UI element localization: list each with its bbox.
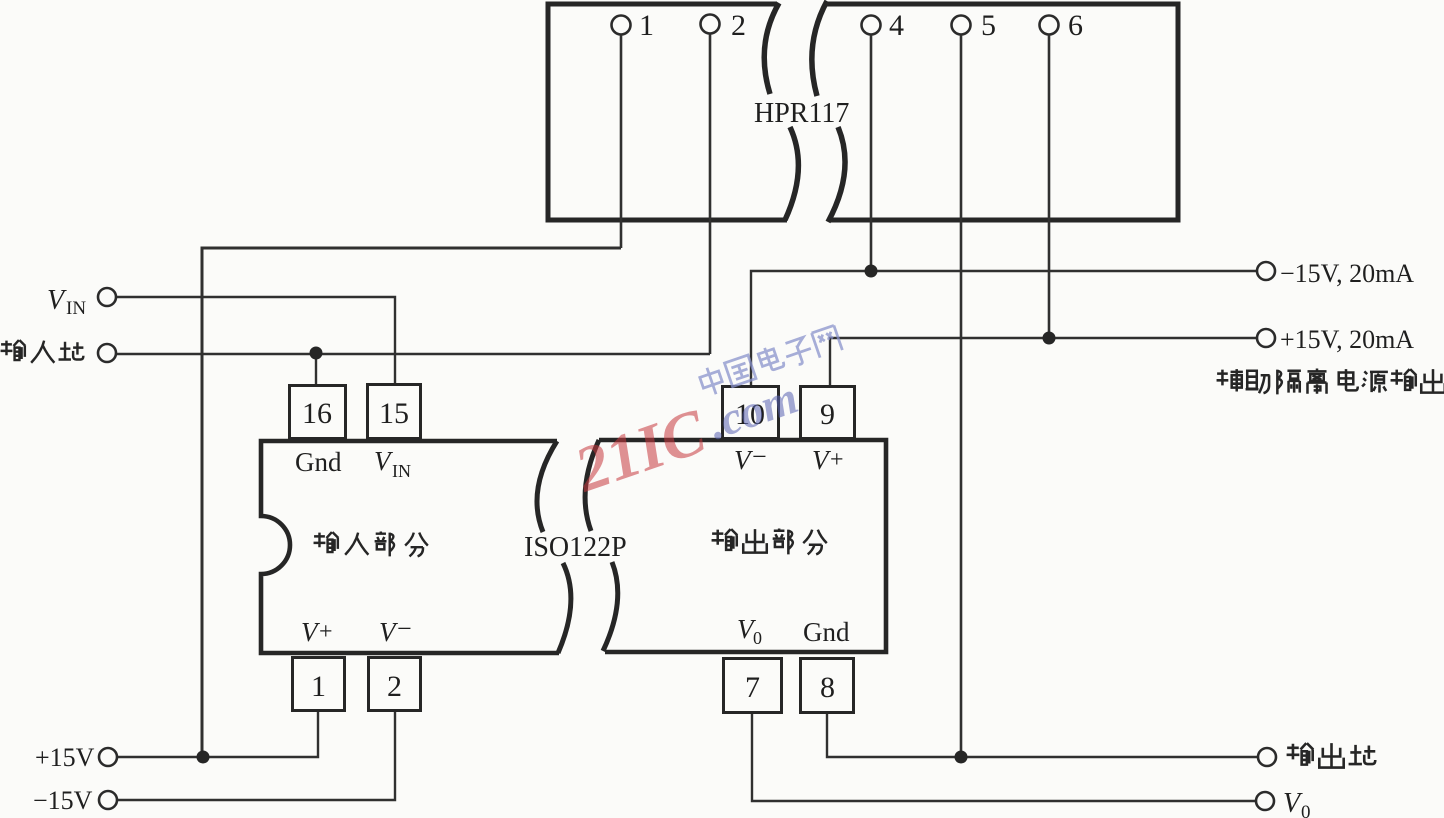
svg-text:7: 7 xyxy=(745,671,760,704)
svg-text:IN: IN xyxy=(392,461,411,481)
svg-text:V: V xyxy=(734,445,754,475)
wire VIN input to pin 15 xyxy=(116,297,395,384)
pin 16 box xyxy=(290,386,346,439)
junction node pin6/+15V rail xyxy=(1043,332,1056,345)
wire pin5 to output ground xyxy=(960,35,963,757)
junction node +15V xyxy=(197,751,210,764)
svg-text:21IC: 21IC xyxy=(565,395,715,506)
wire input ground to pin 2 xyxy=(117,353,710,355)
svg-text:1: 1 xyxy=(639,9,654,42)
svg-text:+15V: +15V xyxy=(35,743,95,772)
terminal -15V 20mA xyxy=(1257,262,1275,280)
label input section xyxy=(314,532,428,557)
terminal VIN xyxy=(98,288,116,306)
svg-text:8: 8 xyxy=(820,671,835,704)
HPR117 break arc bottom-left xyxy=(785,127,798,220)
HPR117 break arc top-right xyxy=(812,1,827,96)
svg-text:9: 9 xyxy=(820,398,835,431)
wire stub node to pin 16 xyxy=(315,354,317,385)
ISO122P input break arc top xyxy=(537,441,557,532)
svg-text:V: V xyxy=(374,446,394,476)
svg-text:HPR117: HPR117 xyxy=(754,98,849,129)
pin 10 box xyxy=(723,387,779,439)
svg-text:5: 5 xyxy=(981,9,996,42)
svg-text:−15V: −15V xyxy=(33,786,93,815)
svg-text:V: V xyxy=(301,617,321,647)
svg-text:−15V, 20mA: −15V, 20mA xyxy=(1280,259,1414,288)
pin 7 box xyxy=(724,659,782,713)
DC/DC converter U2 HPR117 body xyxy=(548,4,1178,220)
wire +15V 20mA rail xyxy=(830,338,1257,385)
wire pin4 to -15V rail xyxy=(870,35,873,271)
terminal output ground xyxy=(1258,748,1276,766)
svg-text:2: 2 xyxy=(731,9,746,42)
svg-text:−: − xyxy=(397,614,412,643)
wire pin7 to V0 output xyxy=(752,714,1255,801)
HPR117 break arc top-left xyxy=(764,3,779,94)
label input ground xyxy=(1,340,84,363)
pin 6 of HPR117 xyxy=(1040,9,1084,42)
wire +15V supply to pin 1 xyxy=(117,712,318,757)
svg-text:V: V xyxy=(1283,788,1303,818)
svg-text:16: 16 xyxy=(302,397,332,430)
pin 2 box xyxy=(369,658,421,711)
svg-text:V: V xyxy=(379,617,399,647)
pin 1 of HPR117 xyxy=(612,9,655,42)
svg-text:ISO122P: ISO122P xyxy=(524,532,627,563)
svg-text:+: + xyxy=(319,619,333,645)
wire pin1 internal xyxy=(620,35,623,248)
pin 4 of HPR117 xyxy=(862,9,905,42)
pin 8 box xyxy=(801,659,854,713)
svg-text:−: − xyxy=(752,442,767,471)
junction node pin4/-15V rail xyxy=(865,265,878,278)
svg-text:2: 2 xyxy=(387,670,402,703)
pin 15 box xyxy=(368,385,421,439)
svg-text:1: 1 xyxy=(311,670,326,703)
wire pin6 to +15V rail xyxy=(1048,35,1051,338)
svg-text:0: 0 xyxy=(753,628,762,648)
terminal -15V supply xyxy=(99,791,117,809)
svg-text:4: 4 xyxy=(889,9,904,42)
op-amp U1 ISO122P output section body xyxy=(599,440,886,652)
terminal V0 output xyxy=(1256,792,1274,810)
svg-text:15: 15 xyxy=(379,397,409,430)
pin 1 box xyxy=(293,658,345,711)
watermark China electronics net xyxy=(698,324,843,397)
wire pin2 to input ground xyxy=(709,34,712,354)
wire output ground rail xyxy=(827,713,1258,757)
svg-text:V: V xyxy=(812,445,832,475)
svg-text:Gnd: Gnd xyxy=(295,447,342,477)
svg-text:V: V xyxy=(47,285,67,316)
svg-text:6: 6 xyxy=(1068,9,1083,42)
svg-text:IN: IN xyxy=(66,298,86,319)
watermark 21IC.com xyxy=(565,363,807,506)
terminal input ground xyxy=(98,344,116,362)
svg-text:0: 0 xyxy=(1301,802,1311,818)
svg-text:Gnd: Gnd xyxy=(803,617,850,647)
ISO122P input break arc bottom xyxy=(558,563,571,653)
pin 2 of HPR117 xyxy=(701,9,747,42)
HPR117 break arc bottom-right xyxy=(828,127,845,222)
label auxiliary isolated supply output xyxy=(1217,369,1444,395)
svg-text:+15V, 20mA: +15V, 20mA xyxy=(1280,325,1414,354)
terminal +15V 20mA xyxy=(1257,329,1275,347)
svg-text:+: + xyxy=(830,447,844,473)
wire -15V supply to pin 2 xyxy=(117,712,395,800)
wire -15V 20mA rail xyxy=(751,271,1257,385)
label output section xyxy=(712,529,827,555)
op-amp U1 ISO122P input section body xyxy=(261,441,559,653)
junction node pin16/ground xyxy=(310,347,323,360)
ISO122P output break arc top xyxy=(585,440,599,531)
ISO122P output break arc bottom xyxy=(603,562,618,651)
wire pin1 to +15V node xyxy=(202,248,621,757)
pin 9 box xyxy=(801,387,855,439)
pin 5 of HPR117 xyxy=(952,9,997,42)
terminal +15V supply xyxy=(99,748,117,766)
label output ground xyxy=(1287,743,1376,767)
junction node pin5/output ground xyxy=(955,751,968,764)
